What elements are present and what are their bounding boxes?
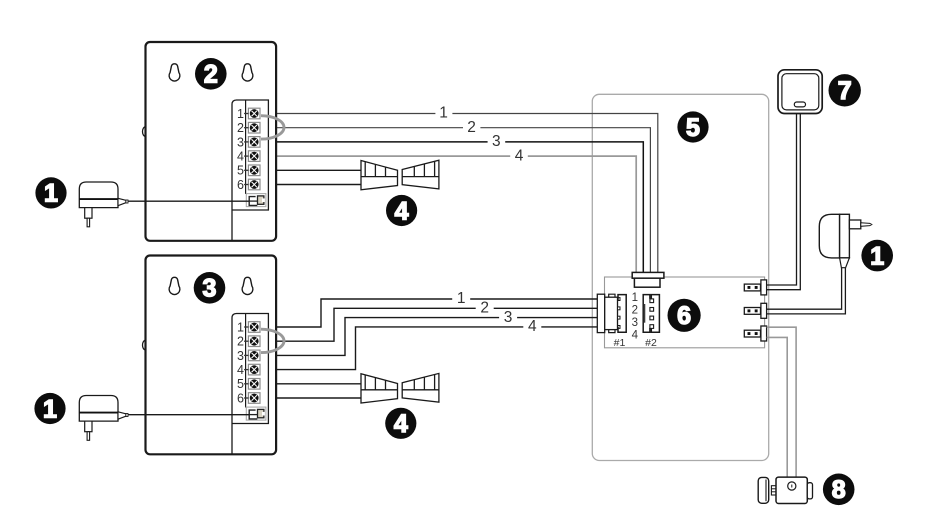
svg-text:2: 2 bbox=[204, 61, 218, 89]
svg-text:4: 4 bbox=[395, 197, 409, 225]
svg-text:2: 2 bbox=[480, 300, 489, 317]
svg-text:4: 4 bbox=[394, 410, 408, 438]
svg-text:5: 5 bbox=[237, 164, 244, 178]
svg-text:1: 1 bbox=[439, 105, 448, 122]
svg-text:1: 1 bbox=[43, 395, 57, 423]
svg-text:3: 3 bbox=[504, 309, 513, 326]
svg-text:1: 1 bbox=[44, 180, 58, 208]
svg-text:4: 4 bbox=[528, 318, 537, 335]
svg-text:2: 2 bbox=[632, 305, 638, 317]
svg-text:4: 4 bbox=[237, 363, 244, 377]
svg-text:8: 8 bbox=[832, 476, 846, 504]
svg-text:1: 1 bbox=[237, 320, 244, 334]
svg-text:#1: #1 bbox=[614, 337, 626, 349]
svg-text:4: 4 bbox=[632, 330, 639, 342]
svg-text:2: 2 bbox=[237, 121, 244, 135]
svg-text:6: 6 bbox=[677, 302, 691, 330]
svg-text:3: 3 bbox=[492, 133, 501, 150]
svg-text:1: 1 bbox=[632, 292, 638, 304]
svg-text:1: 1 bbox=[870, 242, 884, 270]
svg-text:5: 5 bbox=[686, 114, 700, 142]
svg-text:1: 1 bbox=[237, 107, 244, 121]
svg-text:4: 4 bbox=[515, 147, 524, 164]
svg-text:5: 5 bbox=[237, 377, 244, 391]
svg-text:3: 3 bbox=[203, 275, 217, 303]
svg-text:6: 6 bbox=[237, 178, 244, 192]
svg-text:2: 2 bbox=[237, 335, 244, 349]
svg-text:2: 2 bbox=[467, 119, 476, 136]
svg-text:7: 7 bbox=[838, 77, 852, 105]
svg-text:1: 1 bbox=[457, 290, 466, 307]
svg-text:3: 3 bbox=[632, 317, 638, 329]
svg-text:3: 3 bbox=[237, 349, 244, 363]
svg-text:6: 6 bbox=[237, 391, 244, 405]
svg-text:3: 3 bbox=[237, 135, 244, 149]
svg-text:4: 4 bbox=[237, 150, 244, 164]
svg-text:#2: #2 bbox=[645, 337, 657, 349]
